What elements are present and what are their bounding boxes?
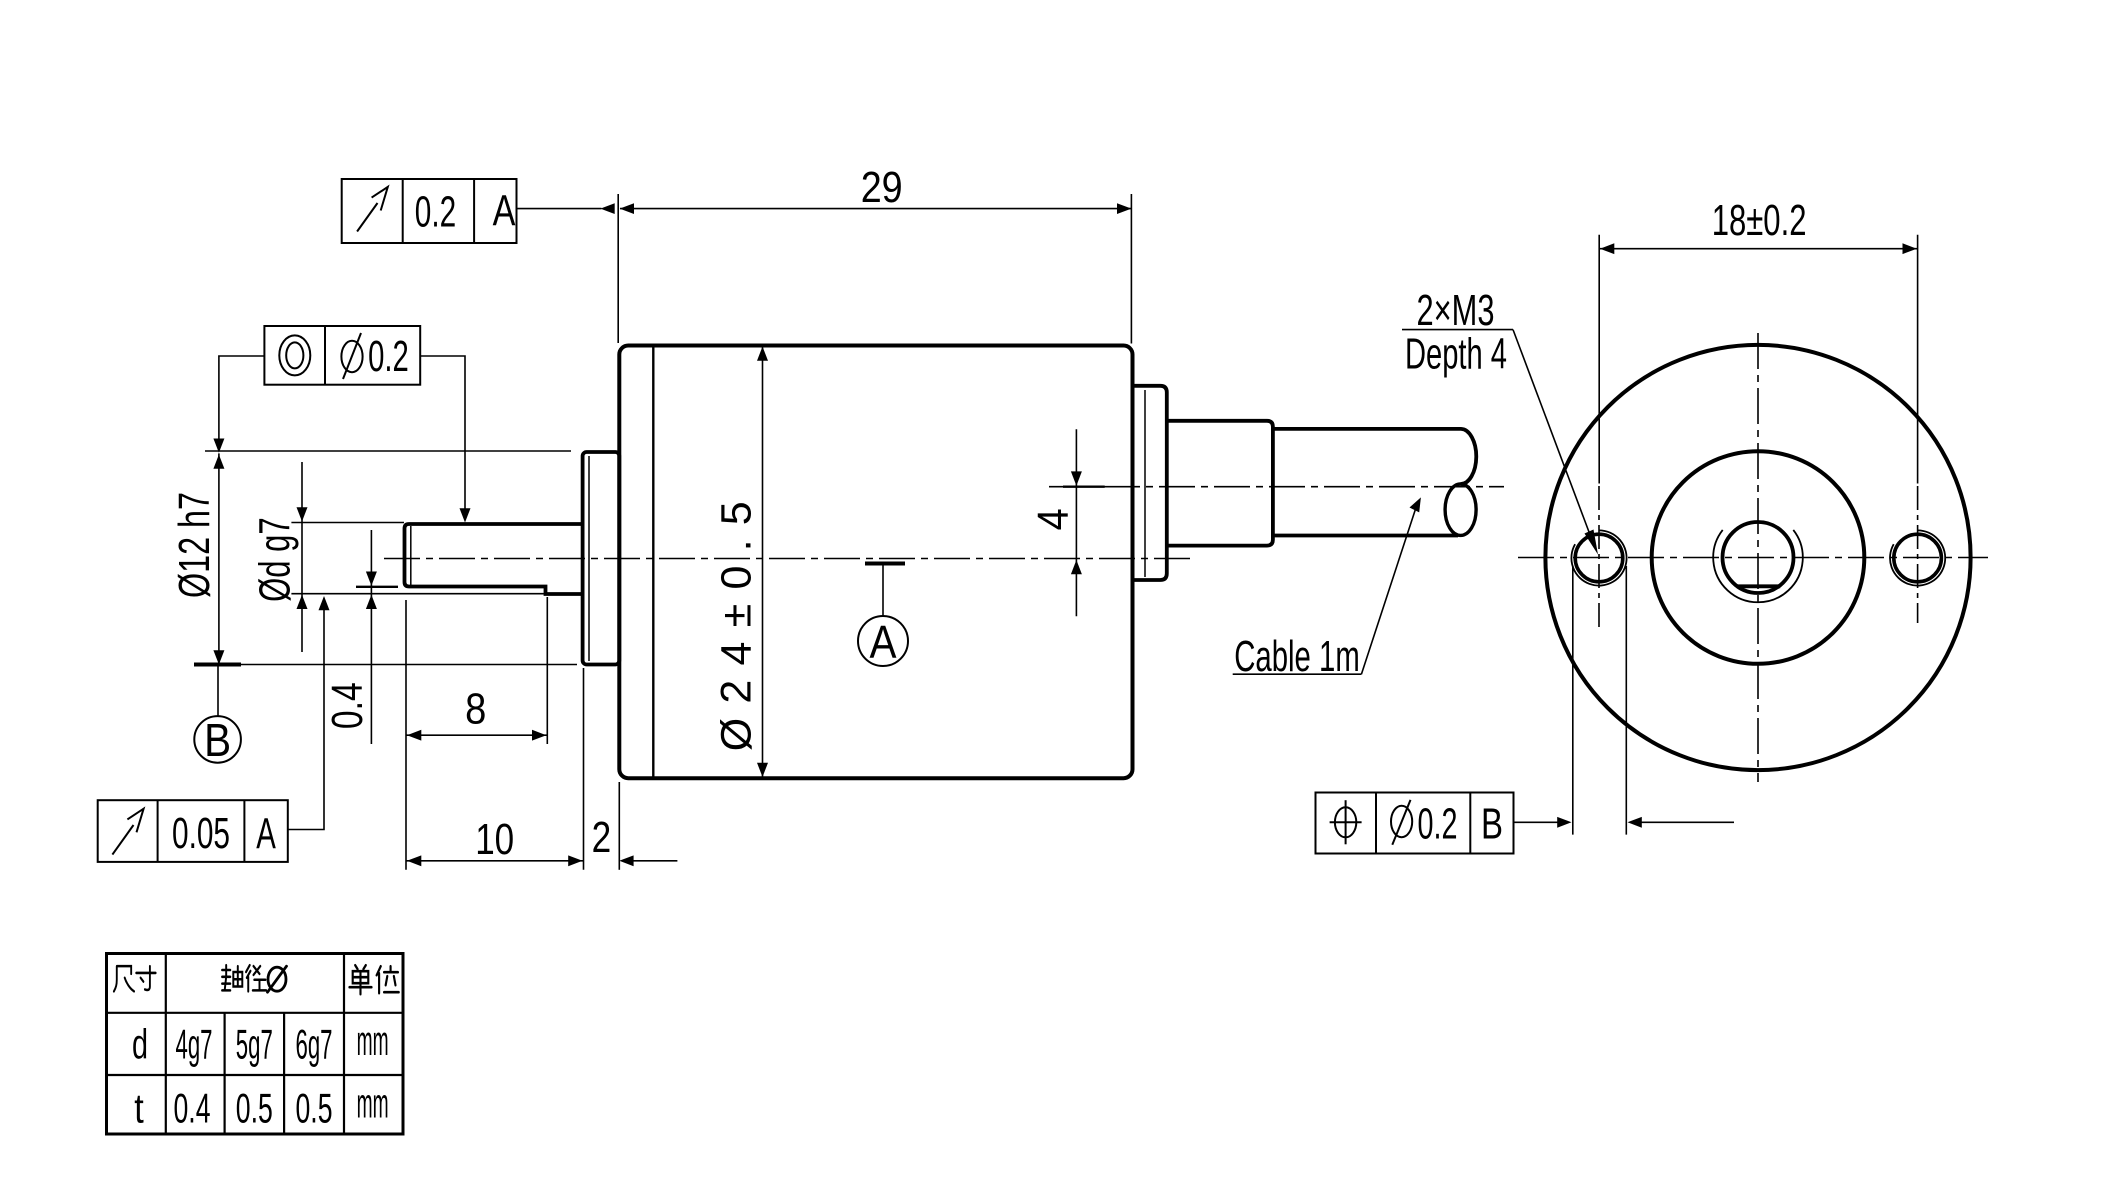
cable [1273,429,1476,484]
svg-text:d: d [132,1021,148,1068]
svg-text:A: A [870,616,897,668]
flange edge thin line [588,456,590,661]
寸 [136,966,155,990]
cable centerline [1049,486,1504,488]
svg-text:4: 4 [1029,508,1078,530]
shaft flat chord [1737,584,1781,588]
svg-text:0.4: 0.4 [323,682,372,729]
svg-text:t: t [134,1085,144,1132]
svg-text:A: A [256,810,276,859]
svg-text:A: A [493,187,516,236]
position dim extension lines [1573,566,1627,835]
svg-text:mm: mm [357,1080,389,1127]
rear hub step 2 (cable bushing) [1167,421,1273,546]
position symbol [1335,807,1356,837]
table row2/row3 latin text [132,1017,389,1132]
svg-text:0.05: 0.05 [172,809,230,858]
body front seam line [652,347,654,778]
svg-text:0.5: 0.5 [296,1085,333,1132]
Ø in header [268,966,287,992]
svg-text:2×M3: 2×M3 [1417,286,1495,335]
svg-text:0.2: 0.2 [415,187,456,236]
svg-text:0.5: 0.5 [236,1085,273,1132]
svg-text:5g7: 5g7 [236,1021,273,1068]
svg-text:2: 2 [592,813,612,862]
leader [288,600,324,830]
rear hub step 1 [1133,386,1167,580]
front view centerlines [1518,333,1988,782]
main centerline [384,558,1190,560]
svg-text:B: B [1481,800,1503,849]
M3 hole left [1575,534,1623,582]
chinese headers drawn as strokes [114,965,399,994]
shaft [405,524,582,594]
max shaft thin arc [1713,530,1803,602]
rear hub step 1 thin line [1144,390,1146,577]
concentricity symbol [279,335,310,375]
svg-text:Ød g7: Ød g7 [251,517,300,602]
svg-text:4g7: 4g7 [176,1021,213,1068]
svg-text:Depth 4: Depth 4 [1405,330,1507,379]
outer circle [1545,345,1970,770]
runout arrow icon [112,825,133,855]
svg-text:6g7: 6g7 [296,1021,333,1068]
shaft circle [1723,522,1794,593]
svg-text:8: 8 [465,684,486,733]
phi [1391,806,1412,837]
svg-text:18±0.2: 18±0.2 [1712,196,1807,245]
M3 hole right [1894,534,1942,582]
单 [349,965,371,994]
尺 [114,966,134,991]
left leader [219,356,265,446]
leader to extension line [517,208,602,210]
hub circle [1652,451,1865,664]
right leader [420,356,465,517]
leader [1514,821,1559,823]
cable end ellipse [1445,484,1476,535]
svg-text:29: 29 [861,163,903,212]
svg-text:0.4: 0.4 [174,1085,211,1132]
flange [583,452,620,665]
svg-text:B: B [204,714,231,766]
svg-text:10: 10 [475,815,514,864]
轴 [222,965,242,990]
body (main cylinder) [619,346,1132,779]
svg-text:mm: mm [357,1017,389,1064]
径 [246,965,266,991]
svg-text:0.2: 0.2 [368,332,409,381]
shaft end chamfer thin line [410,526,412,585]
svg-text:Ø12 h7: Ø12 h7 [170,492,219,598]
位 [377,966,399,993]
runout arrow icon [357,203,377,232]
svg-text:Cable 1m: Cable 1m [1234,632,1360,681]
svg-text:0.2: 0.2 [1418,800,1458,849]
phi of 0.2 [341,341,362,372]
